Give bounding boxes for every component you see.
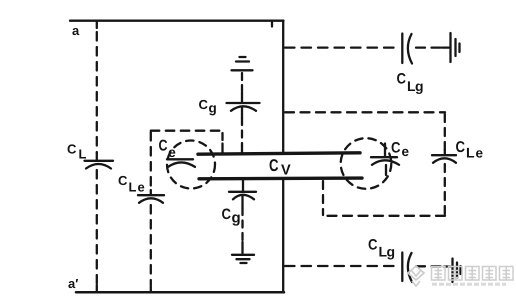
- wire dashed branch through CL (x=97): [96, 21, 98, 292]
- capacitor CLe (right): [432, 155, 456, 163]
- capacitor CLe (left): [138, 195, 164, 203]
- value label Ce (right): [391, 140, 410, 160]
- wire dashed to CLg (top): [285, 46, 441, 48]
- svg-text:C: C: [391, 140, 401, 157]
- value label CLe (left): [118, 173, 145, 195]
- capacitor CLg (top): [402, 34, 412, 64]
- field circle (right electrode): [341, 138, 392, 189]
- wire right edge of main box: [282, 21, 284, 154]
- wire dashed box around left electrode: [151, 131, 223, 154]
- ground (inverted, above Cg upper): [232, 57, 253, 91]
- svg-text:C: C: [269, 156, 279, 175]
- capacitor Cg (lower): [229, 180, 256, 242]
- svg-text:a: a: [72, 23, 80, 38]
- value label Ce (left): [159, 138, 177, 161]
- ground (below Cg lower): [232, 242, 254, 263]
- field circle (left electrode): [167, 141, 215, 189]
- svg-text:a′: a′: [68, 276, 78, 291]
- capacitor CL: [85, 161, 114, 169]
- svg-text:e: e: [138, 180, 145, 195]
- capacitor Cg (upper): [227, 92, 260, 153]
- wire junction tick on top bus: [271, 21, 273, 27]
- capacitor CLg (bottom): [402, 253, 412, 283]
- svg-text:L: L: [129, 180, 137, 195]
- svg-text:g: g: [232, 210, 241, 227]
- value label Cg (upper): [199, 97, 217, 116]
- node a' label: [68, 276, 78, 291]
- svg-text:g: g: [209, 101, 217, 116]
- wire dashed box around right electrode: [285, 112, 445, 216]
- wire dashed branch through CLe (x=151): [150, 132, 152, 292]
- svg-text:L: L: [466, 145, 475, 161]
- wire dashed to CLg (bottom): [285, 265, 443, 268]
- svg-text:C: C: [118, 173, 128, 188]
- svg-text:C: C: [222, 206, 232, 223]
- value label CLg (bottom): [368, 237, 395, 260]
- vane bottom bar: [199, 176, 362, 180]
- vane top bar: [198, 153, 360, 154]
- capacitor Ce (left): [167, 159, 195, 167]
- ground (right of CLg top): [442, 33, 460, 62]
- svg-text:C: C: [397, 71, 407, 88]
- value label CLg (top): [397, 71, 424, 95]
- capacitor Ce (right): [371, 144, 399, 176]
- ground (right of CLg bottom): [444, 259, 461, 283]
- svg-text:e: e: [402, 144, 410, 159]
- svg-text:V: V: [281, 163, 291, 179]
- svg-text:C: C: [159, 138, 168, 155]
- svg-text:C: C: [368, 237, 378, 254]
- svg-text:C: C: [456, 139, 466, 156]
- svg-text:g: g: [415, 78, 424, 94]
- svg-text:C: C: [67, 142, 77, 157]
- wire top bus a: [70, 20, 284, 22]
- value label CL: [67, 142, 87, 162]
- svg-text:e: e: [476, 146, 484, 161]
- svg-text:g: g: [387, 244, 396, 260]
- svg-text:e: e: [168, 144, 176, 160]
- value label Cg (lower): [222, 206, 241, 227]
- watermark logo and text: [408, 266, 513, 286]
- svg-text:L: L: [79, 147, 87, 162]
- value label CV: [269, 156, 291, 179]
- node a label: [72, 23, 80, 38]
- wire bottom bus a': [76, 291, 284, 294]
- value label CLe (right): [456, 139, 484, 161]
- svg-text:C: C: [199, 97, 209, 112]
